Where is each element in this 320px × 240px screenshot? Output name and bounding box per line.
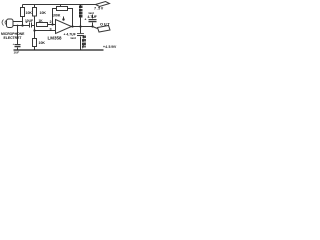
svg-text:+4.5/9V: +4.5/9V [103,45,117,49]
svg-text:OUT: OUT [100,22,110,27]
svg-text:3: 3 [50,28,52,32]
svg-text:10K: 10K [39,41,46,45]
svg-text:F: F [82,46,84,50]
svg-text:4.7UF: 4.7UF [88,15,97,19]
svg-text:+: + [26,21,28,25]
svg-text:tant: tant [89,11,95,15]
svg-text:10K: 10K [40,11,47,15]
svg-text:7.5V: 7.5V [94,7,104,11]
svg-text:100K: 100K [52,14,61,18]
svg-text:ELECTRET: ELECTRET [4,36,23,40]
svg-text:2: 2 [50,20,52,24]
svg-text:LM358: LM358 [48,36,63,41]
svg-text:tant: tant [71,36,77,40]
svg-text:10K: 10K [26,11,33,15]
svg-text:1K: 1K [39,19,44,23]
svg-text:1UF: 1UF [14,51,20,55]
svg-text:MICROPHONE: MICROPHONE [1,32,25,36]
svg-text:+: + [85,18,87,22]
svg-text:+: + [13,42,15,46]
